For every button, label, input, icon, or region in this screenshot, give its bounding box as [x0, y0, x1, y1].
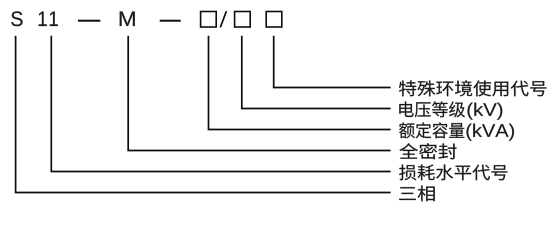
separator dash 1 — [78, 20, 100, 22]
placeholder box 2 (voltage grade) — [235, 12, 251, 28]
placeholder box 3 (special environment code) — [266, 12, 282, 28]
separator dash 2 — [160, 20, 181, 22]
model letter M (fully sealed code) — [120, 12, 135, 26]
placeholder box 1 (rated capacity) — [201, 12, 217, 28]
label 损耗水平代号 — [399, 164, 507, 180]
model number 11 digit 1 (loss level code) — [39, 12, 47, 26]
wire from box 3 down then right to label 特殊环境使用代号 — [274, 36, 391, 88]
wire from box 2 down then right to label 电压等级(kV) — [242, 36, 391, 109]
wire from 11 down then right to label 损耗水平代号 — [51, 36, 390, 172]
wire from S down then right to label 三相 — [16, 36, 391, 193]
label 特殊环境使用代号 — [399, 80, 546, 96]
label 三相 — [399, 185, 435, 201]
wire from box 1 down then right to label 额定容量(kVA) — [209, 36, 391, 130]
slash between box 1 and box 2 — [220, 11, 226, 27]
label 全密封 — [399, 143, 456, 159]
wire from M down then right to label 全密封 — [128, 36, 390, 151]
model letter S (three-phase code) — [11, 11, 22, 26]
label 电压等级(kV) — [399, 101, 465, 117]
model number 11 digit 2 — [50, 12, 58, 26]
label 额定容量(kVA) — [399, 122, 464, 138]
